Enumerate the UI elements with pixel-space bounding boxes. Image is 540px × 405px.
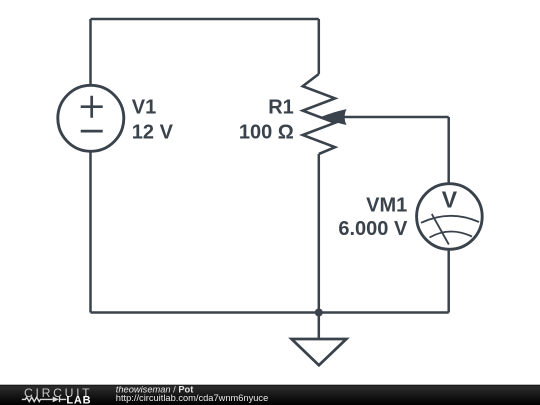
- ground: [292, 339, 347, 365]
- wire left lower: [89, 151, 92, 312]
- svg-text:R1: R1: [268, 97, 294, 119]
- svg-text:V: V: [442, 187, 458, 213]
- svg-text:6.000 V: 6.000 V: [338, 218, 408, 240]
- wire voltmeter top: [447, 117, 450, 184]
- wire bottom: [91, 311, 449, 314]
- wire R1 top: [318, 19, 321, 74]
- CircuitLab logo: [22, 386, 93, 405]
- junction: [315, 309, 323, 317]
- svg-text:12 V: 12 V: [132, 121, 174, 143]
- wire ground stub: [318, 313, 321, 340]
- svg-text:V1: V1: [132, 97, 156, 119]
- voltage source V1: [58, 85, 124, 151]
- svg-text:100 Ω: 100 Ω: [239, 122, 294, 144]
- wire voltmeter bottom: [447, 249, 450, 312]
- wire top: [91, 18, 319, 21]
- wire R1 bottom: [318, 154, 321, 313]
- wire left upper: [89, 19, 92, 85]
- svg-text:LAB: LAB: [66, 395, 91, 405]
- wire wiper horizontal: [344, 116, 449, 119]
- voltmeter VM1: [417, 184, 483, 250]
- potentiometer R1: [303, 74, 347, 154]
- svg-text:VM1: VM1: [366, 195, 407, 217]
- footer bar: [0, 385, 540, 405]
- svg-text:http://circuitlab.com/cda7wnm6: http://circuitlab.com/cda7wnm6nyuce: [116, 393, 268, 403]
